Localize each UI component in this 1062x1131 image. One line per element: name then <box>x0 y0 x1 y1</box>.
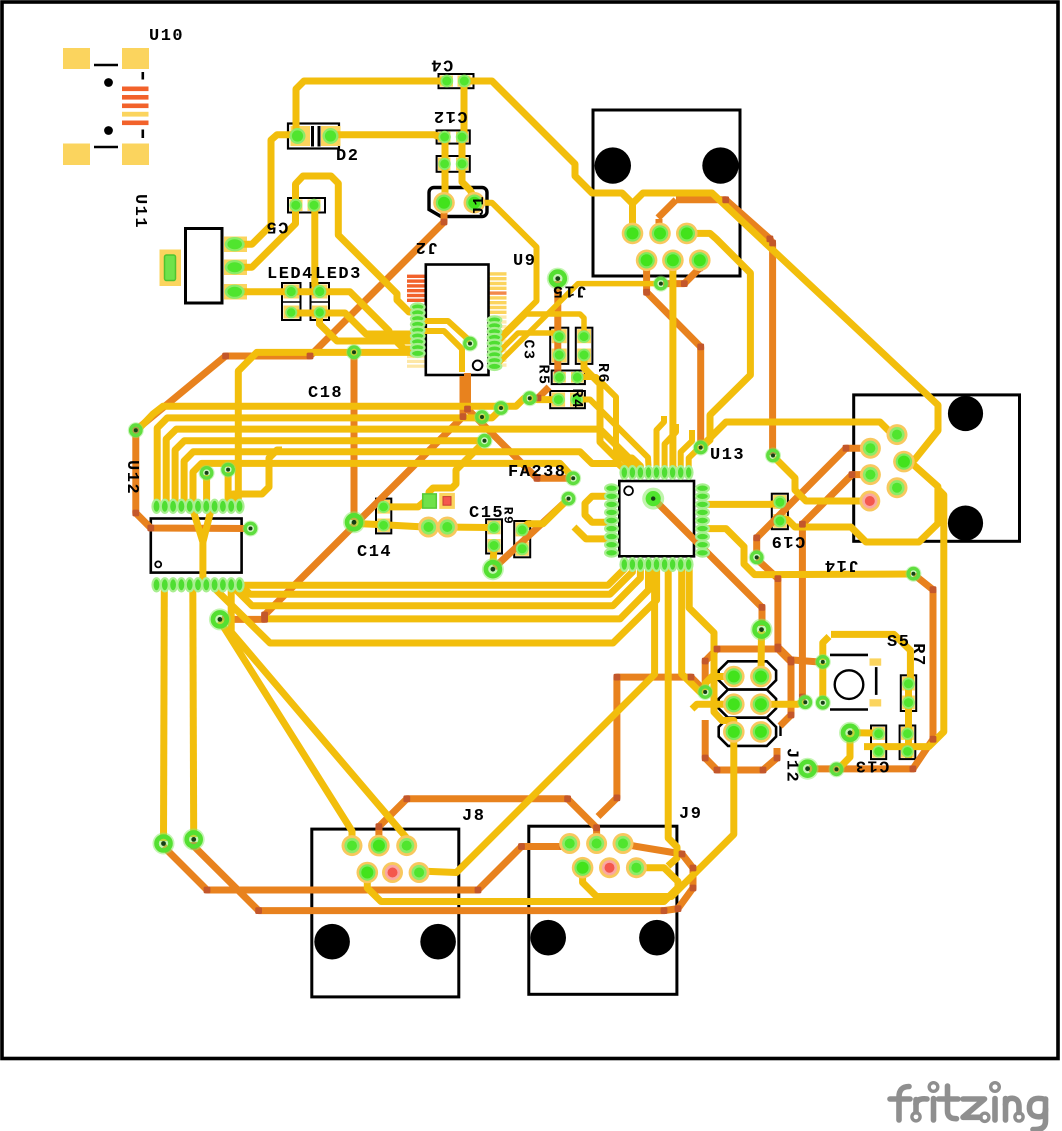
wire y19 via to J8 row1-1 <box>220 621 352 843</box>
svg-text:C19: C19 <box>770 531 805 550</box>
wire y33 C4 to C12 to J1 verticals <box>461 83 468 135</box>
wire y1 C4 left pad to D2 left pad <box>296 81 447 130</box>
LED LED3 pads <box>313 285 326 298</box>
capacitor below C12 pads <box>438 158 450 170</box>
fritzing logo <box>890 1083 1046 1130</box>
svg-text:U12: U12 <box>122 460 141 495</box>
wire o3 J2 bottom to via FA238 <box>468 373 572 478</box>
wire y8 J2 right fan to C3 top <box>496 333 559 355</box>
diode D2 pads <box>290 128 306 144</box>
resistor R5 <box>552 371 585 385</box>
wire y13c R6 bottom fan to U13 top <box>584 356 640 470</box>
n <box>1003 1099 1009 1121</box>
svg-text:J1: J1 <box>471 195 488 216</box>
connector J8 <box>312 829 459 997</box>
capacitor C3 pads <box>553 330 566 343</box>
svg-text:J14: J14 <box>823 555 858 574</box>
wire o10 U13 center diagonal to via J12 <box>653 499 762 626</box>
r <box>913 1100 919 1113</box>
wire yC14 C14 top pad to C15 <box>385 501 427 507</box>
crystal C15 pads group <box>439 493 455 509</box>
svg-text:C4: C4 <box>430 55 453 74</box>
wire y2b right connector big pad to C19 bottom <box>782 458 938 542</box>
capacitor C3 <box>550 328 568 364</box>
wire y29 U13 left pads stubs <box>574 527 610 539</box>
wire b4 bundle U12 pad3 <box>175 441 481 504</box>
wire y47 U13 bottom pad to J12 <box>689 566 734 730</box>
resistor R9 <box>514 521 530 557</box>
wire b1 bundle via to right <box>136 398 527 432</box>
IC J2 <box>407 275 426 302</box>
wire y22 J8 row2-1 to J9 row2-3 <box>367 868 678 902</box>
wire y46 U13 bottom pad to via <box>682 566 703 692</box>
connector top right pads <box>622 223 644 245</box>
wire y28 U13 left hook <box>585 496 610 522</box>
wire o14 via J14 down right side to C13 <box>809 575 933 769</box>
i <box>931 1099 937 1121</box>
wire L5 U13 bottom pad5 sweep <box>215 566 657 643</box>
svg-text:R4: R4 <box>568 388 585 409</box>
svg-text:U11: U11 <box>130 194 149 229</box>
wire oXtal via to via diagonal <box>495 500 568 567</box>
i <box>992 1099 998 1121</box>
svg-text:C15: C15 <box>469 504 504 523</box>
wire y12 J2 right fan to U13 top pad 1 <box>578 377 632 468</box>
wire b2 bundle U12 pad1 <box>157 411 499 504</box>
wire o2 J2 bottom to via left of U12 <box>222 376 463 619</box>
wire yU13top extra stubs <box>657 416 665 468</box>
header J12 pads <box>723 666 745 688</box>
capacitor C12 pads <box>438 131 450 143</box>
IC pad rows <box>411 303 425 310</box>
capacitor C14 pads <box>377 501 389 513</box>
wire o12 J8 pad row1-2 to J9 pad row1-2 <box>379 799 597 845</box>
g <box>1029 1098 1045 1116</box>
wire y45 U13 bottom vertical long to J9 <box>668 566 677 866</box>
wire y6 J15 via horizontal to via <box>496 284 656 366</box>
resistor R4 pads <box>552 393 565 406</box>
wire y41d J12 row1 left to via <box>705 677 732 691</box>
wire o6 top connector row2 pad3 to via J15 line <box>663 262 700 284</box>
wire o15 J12 ring upper <box>705 649 791 726</box>
z <box>963 1099 985 1117</box>
LED LED4 pads <box>285 285 298 298</box>
vias pads <box>128 422 144 438</box>
svg-text:R7: R7 <box>908 643 927 666</box>
wire y34 J1 right pad to J2 area <box>476 203 537 340</box>
wire b5 bundle U12 pad4 <box>184 452 624 504</box>
orange bend points <box>132 196 936 914</box>
wire y41a via to J12 row1 right <box>758 631 766 674</box>
wire L3 U13 bottom pad3 to U12 bottom <box>223 566 641 606</box>
capacitor C19 pads <box>774 496 787 509</box>
IC U12 <box>151 519 242 573</box>
svg-text:LED4: LED4 <box>267 265 314 284</box>
capacitor C4 <box>439 74 474 88</box>
wire b6 bundle U12 pad5 to via FA238 <box>193 463 572 504</box>
svg-text:C12: C12 <box>432 106 467 125</box>
resistor R6 pads <box>578 330 591 343</box>
wire b8 hook from U12 pad to bundle <box>233 450 282 504</box>
capacitor below C12 <box>437 156 470 172</box>
wire y20 U12 bottom to J8 row1-3 <box>231 590 407 843</box>
connector J9 <box>529 826 677 994</box>
wire y14 via to right connector col2 top <box>702 422 896 447</box>
wire y41c J12 row2 right to via <box>762 701 804 704</box>
header J1 <box>429 188 487 217</box>
wire y7 J15 to R6 top <box>496 314 584 344</box>
wire o8 right connector col1 pad1 to S5 vias <box>757 448 868 554</box>
connector right pads <box>860 438 881 459</box>
capacitor C5 pads <box>289 199 302 212</box>
svg-text:U9: U9 <box>513 252 536 271</box>
wire yJ2int internal traces <box>420 321 470 341</box>
wire b7 via stubs above U12 <box>203 475 210 504</box>
svg-text:C3: C3 <box>520 339 537 360</box>
wire L4 U13 bottom pad4 to via U12 <box>262 566 649 619</box>
LED LED3 <box>311 283 330 320</box>
wire y37 LED4 bottom to J2 left <box>291 313 415 334</box>
capacitor C13a <box>871 726 886 760</box>
wire y36b U11 pad2 to C5 left pad <box>236 209 296 267</box>
connector J8 pads <box>342 835 363 856</box>
wire y2c right connector vertical down to J9 row2-1 <box>864 489 944 747</box>
connector right <box>854 395 1020 541</box>
wire y42 S5 ring to R7 to C13 <box>819 663 826 700</box>
connector top right <box>593 110 740 276</box>
svg-text:FA238: FA238 <box>508 463 567 482</box>
svg-text:U13: U13 <box>710 446 745 465</box>
wire L2 U13 bottom pad2 to U12 bottom <box>231 566 632 594</box>
wire y39 C5 left arch to J2 left <box>296 176 416 312</box>
capacitor C15 body <box>486 519 502 553</box>
resistor R7 <box>901 675 916 711</box>
wire y5 top connector row2 pad2 down to U13 top pad <box>673 262 674 469</box>
wire y18 J8 row2-3 long diagonal to U13 bottom <box>419 566 654 873</box>
wire oC3 J15 via through C3 to R5 left to via R4 <box>554 281 562 377</box>
IC U13 <box>619 481 694 556</box>
capacitor C14 <box>376 499 391 534</box>
f <box>899 1087 909 1121</box>
wire y13b R4 right to U13 top pad4 <box>578 400 649 467</box>
capacitor C13b <box>900 726 916 760</box>
resistor R9 pads <box>516 524 529 537</box>
wire y26 C15 top-left hook to via <box>429 446 480 497</box>
wire y31c U13 right pad to J14 via horizontal <box>704 529 911 575</box>
svg-text:C5: C5 <box>265 216 288 235</box>
wire y31a U13 right pad to C19 top <box>704 503 782 505</box>
capacitor C4 pads <box>440 75 453 88</box>
svg-text:D2: D2 <box>336 147 359 166</box>
svg-text:LED3: LED3 <box>315 265 362 284</box>
wire o16 J12 ring lower <box>705 720 777 770</box>
wire y41e J12 row2 left stub <box>692 704 732 709</box>
wire y16 U12 internal Y <box>193 510 203 582</box>
wire o11 via to J9 pad row1-1 <box>164 844 570 891</box>
wire o5 top connector row2 pad1 down to via U13 <box>647 261 701 445</box>
capacitor C12 <box>437 130 470 143</box>
regulator U11 pads <box>165 255 176 281</box>
wire y2 C4 right pad to top connector to right connector pad <box>464 81 938 460</box>
svg-text:C14: C14 <box>357 543 392 562</box>
capacitor C13b pads <box>901 728 913 740</box>
t <box>948 1086 957 1119</box>
svg-text:R9: R9 <box>501 507 516 526</box>
wire yH C18 horizontal to J2 left pads <box>238 352 416 504</box>
wire y4 top connector row1 pad3 to U13 right area <box>689 233 750 447</box>
wire y36a U11 pad1 up to D2 left pad <box>236 135 292 245</box>
capacitor C13a pads <box>872 728 884 740</box>
svg-text:J12: J12 <box>782 748 801 783</box>
svg-text:C13: C13 <box>854 756 889 775</box>
resistor R6 <box>576 328 593 364</box>
wire y41b J12 row3 left down <box>583 733 734 897</box>
wire y36c U11 pad3 to LED4 top to J2 left <box>236 292 415 349</box>
capacitor C15 body pads <box>488 521 501 534</box>
LED LED4 <box>282 283 301 320</box>
wire o7 top connector row1 pad2 over to right via <box>659 219 660 232</box>
svg-text:J9: J9 <box>679 805 702 824</box>
capacitor C19 <box>772 494 788 530</box>
wire L1 U13 bottom pad1 to U12 bottom <box>243 566 624 585</box>
wire y35 D2 right pad to C12 left <box>332 135 443 137</box>
wire y11 J2 right fan to R4 left <box>530 398 553 399</box>
switch S5 <box>830 654 868 657</box>
svg-text:U10: U10 <box>149 27 184 46</box>
wire y38 LED3 bottom to J2 left <box>320 315 416 341</box>
svg-text:J15: J15 <box>551 280 586 299</box>
svg-text:R6: R6 <box>594 363 611 384</box>
wire y31b via to right connector red pad <box>775 458 867 502</box>
transformer U10 <box>63 48 90 69</box>
resistor R4 <box>550 391 585 408</box>
wire y40 C5 right pad down to LED3 top <box>315 208 320 290</box>
svg-text:J2: J2 <box>414 237 437 256</box>
wire y25 via C18 bottom to C14 C15 row <box>356 524 488 528</box>
header J12 <box>719 661 776 689</box>
wire o9 right connector col1 pad2 down to via J12 <box>802 475 868 700</box>
wire y27 via to R9 top <box>522 501 567 530</box>
wire y43 via to C13 left top <box>852 729 877 737</box>
wire o1 J1 pad1 to U12 via orange <box>136 206 444 529</box>
svg-text:R5: R5 <box>534 364 551 385</box>
svg-text:S5: S5 <box>887 633 910 652</box>
wire o13 via to J9 pad row1-3 wrap <box>194 842 693 911</box>
svg-text:J8: J8 <box>462 807 485 826</box>
regulator U11 <box>160 250 182 287</box>
header J1 pads <box>433 192 455 214</box>
wire o12b branch up to J12 ring <box>598 677 705 816</box>
wire b3 bundle U12 pad2 <box>166 429 640 504</box>
wire y21 U12 bottom verticals to vias <box>160 586 168 841</box>
resistor R5 pads <box>553 371 565 383</box>
capacitor C5 <box>288 198 325 213</box>
connector J9 pads <box>559 833 580 854</box>
resistor R7 pads <box>902 677 915 690</box>
svg-text:C18: C18 <box>308 384 343 403</box>
wire o4 C18 vertical via to via <box>351 354 358 520</box>
diode D2 <box>288 124 339 149</box>
crystal C15 pads group pads <box>423 494 437 508</box>
wire y3 top connector row1 pad1 feed <box>622 193 633 231</box>
